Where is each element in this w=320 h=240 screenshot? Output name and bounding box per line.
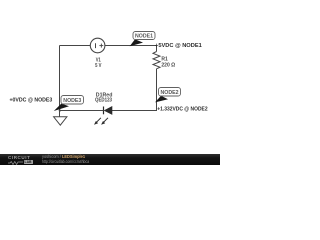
svg-text:QED123: QED123 [95, 98, 112, 104]
svg-text:+0VDC @ NODE3: +0VDC @ NODE3 [10, 98, 53, 104]
node flag NODE2 [155, 88, 181, 103]
svg-text:NODE3: NODE3 [63, 98, 81, 104]
wire top-left to source [60, 45, 91, 47]
wire right vertical upper [156, 46, 158, 52]
wire right vertical lower [156, 69, 158, 111]
svg-text:+5VDC @ NODE1: +5VDC @ NODE1 [155, 43, 202, 49]
wire bottom right segment [112, 110, 157, 112]
resistor R1 [153, 52, 160, 69]
R1 value label [161, 57, 175, 69]
voltage source V1 [90, 38, 105, 53]
wire source to top-right corner [105, 45, 157, 47]
footer text line 1 [42, 154, 85, 159]
junction node [59, 109, 61, 111]
LED D1 [94, 107, 112, 125]
svg-text:5 V: 5 V [95, 63, 102, 69]
node flag NODE3 [54, 96, 84, 112]
svg-text:NODE1: NODE1 [135, 34, 153, 40]
footer bar [0, 154, 220, 165]
wire bottom left segment [59, 110, 104, 112]
D1 value label [95, 92, 112, 103]
ground [54, 117, 67, 125]
svg-text:+1.332VDC @ NODE2: +1.332VDC @ NODE2 [157, 106, 207, 112]
footer logo CIRCUIT LAB [8, 155, 30, 160]
node flag NODE1 [130, 32, 155, 47]
footer text line 2 [42, 159, 89, 164]
wire left vertical [59, 46, 61, 111]
svg-text:NODE2: NODE2 [161, 90, 179, 96]
svg-text:220 Ω: 220 Ω [161, 63, 175, 69]
V1 value label [95, 57, 102, 69]
wire ground stem [59, 111, 61, 118]
